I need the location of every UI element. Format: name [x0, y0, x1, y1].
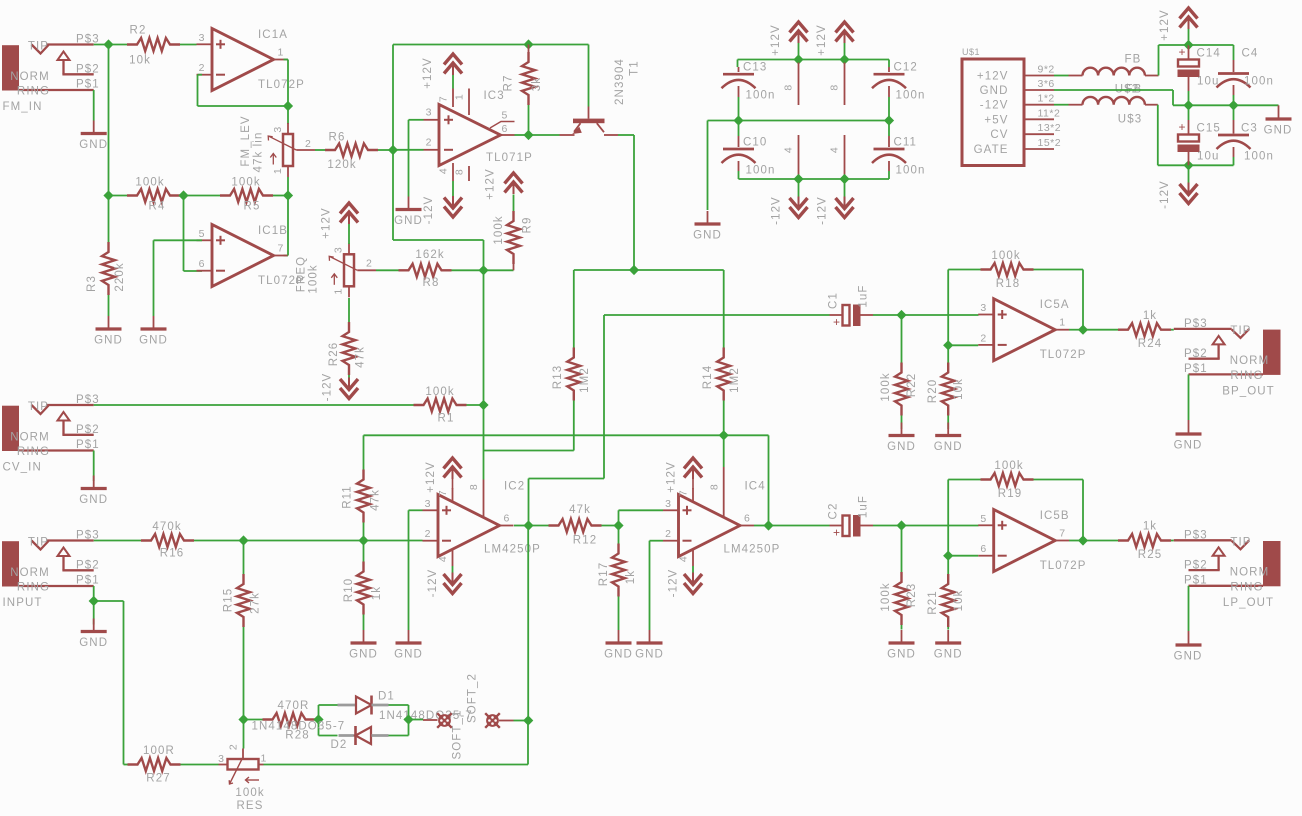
svg-text:CV: CV: [990, 129, 1008, 141]
svg-text:P$2: P$2: [1184, 348, 1208, 360]
svg-text:10k: 10k: [129, 55, 151, 67]
jumper pad SOFT_1: [438, 714, 451, 727]
ground GND (IC3 pin3): [408, 197, 410, 210]
svg-text:C3: C3: [1241, 123, 1258, 135]
svg-text:RING: RING: [17, 446, 50, 458]
wire IC5B output: [1069, 540, 1083, 542]
svg-text:SOFT_2: SOFT_2: [467, 673, 479, 723]
svg-text:IC2: IC2: [504, 481, 525, 493]
svg-text:NORM: NORM: [10, 567, 50, 579]
svg-text:P$1: P$1: [76, 439, 100, 451]
svg-text:T1: T1: [629, 60, 641, 76]
svg-text:TL072P: TL072P: [258, 79, 305, 91]
capacitor C1 1uF: [830, 314, 843, 316]
pin 7 power IC2: [452, 488, 454, 501]
svg-text:GND: GND: [635, 649, 664, 661]
wire: [738, 171, 740, 179]
svg-text:GND: GND: [394, 649, 423, 661]
node mid rail C4/C3: [1228, 100, 1238, 110]
svg-text:8: 8: [709, 484, 721, 490]
wire R14 to IC4 pin8: [723, 435, 725, 467]
svg-text:GND: GND: [79, 637, 108, 649]
resistor R28 470R: [244, 719, 263, 721]
wire to FM_LEV: [287, 106, 289, 124]
wire T1 collector to R13/R14 bracket: [618, 134, 634, 136]
connector CV_IN jack: [2, 406, 19, 451]
svg-text:2N3904: 2N3904: [614, 58, 626, 105]
wire: [108, 45, 110, 196]
resistor R8 162k: [399, 264, 452, 277]
svg-text:2: 2: [665, 528, 671, 540]
svg-text:15*2: 15*2: [1038, 137, 1062, 149]
svg-text:+: +: [1178, 45, 1185, 59]
svg-text:7: 7: [278, 243, 284, 255]
pin 4 power IC4: [692, 550, 694, 566]
jumper pad SOFT_2: [486, 714, 499, 727]
node R15 top: [238, 535, 248, 545]
svg-text:4: 4: [783, 147, 795, 153]
wire: [738, 97, 740, 121]
svg-text:GND: GND: [349, 649, 378, 661]
svg-text:7: 7: [437, 490, 449, 496]
svg-text:FB: FB: [1125, 54, 1142, 66]
wire FM_LEV pin1 down: [287, 177, 289, 196]
svg-text:GND: GND: [79, 139, 108, 151]
svg-text:R19: R19: [998, 488, 1022, 500]
svg-text:1M2: 1M2: [579, 367, 591, 393]
wire IC4 pin2 to ground: [650, 540, 664, 542]
wire: [1054, 104, 1069, 106]
svg-text:2: 2: [228, 744, 240, 750]
svg-text:IC5B: IC5B: [1040, 510, 1070, 522]
pin 5/6 offset pins IC3: [490, 122, 515, 129]
wire: [901, 625, 903, 630]
wire: [844, 43, 846, 60]
svg-text:1N4148DO35-7: 1N4148DO35-7: [252, 721, 346, 733]
wire: [348, 224, 350, 244]
svg-text:7: 7: [438, 96, 450, 102]
wire R15 bottom: [243, 627, 245, 720]
svg-text:2: 2: [980, 332, 986, 344]
svg-text:7: 7: [678, 490, 690, 496]
capacitor C14 10u: [1188, 45, 1190, 60]
wire U$2 to +12V node: [1158, 45, 1160, 76]
resistor R2 10k: [127, 38, 180, 51]
svg-text:-12V: -12V: [668, 569, 680, 598]
resistor R1 100k: [414, 399, 467, 412]
svg-text:GND: GND: [887, 649, 916, 661]
wire U$3 to -12V rail: [1157, 105, 1159, 166]
svg-text:NORM: NORM: [1230, 567, 1270, 579]
svg-text:3: 3: [980, 302, 986, 314]
resistor R22 100k: [901, 315, 903, 363]
svg-text:9*2: 9*2: [1038, 64, 1055, 76]
wire bracket: [574, 269, 724, 271]
wire IC3 out to T1: [529, 134, 560, 136]
node input ring: [89, 596, 99, 606]
wire IC2 out net down: [527, 526, 529, 721]
svg-text:GND: GND: [1174, 651, 1203, 663]
wire: [798, 43, 800, 60]
resistor R7 3k: [528, 45, 530, 63]
pin 7 power IC4: [692, 488, 694, 501]
svg-text:4: 4: [438, 168, 450, 174]
wire RES pin2: [243, 720, 245, 749]
resistor R25 1k: [1083, 540, 1118, 542]
op-amp IC5A TL072P: [994, 299, 1055, 361]
wire jog to IC4 pin3: [618, 510, 620, 525]
wire R27 to RES: [181, 764, 219, 766]
wire input line: [94, 540, 141, 542]
resistor R20 10k: [947, 345, 949, 362]
node -12V rail A: [793, 174, 803, 184]
svg-text:R4: R4: [149, 201, 166, 213]
svg-text:3: 3: [218, 753, 224, 765]
wire: [319, 735, 338, 737]
svg-text:27k: 27k: [250, 592, 262, 614]
svg-text:R24: R24: [1138, 338, 1162, 350]
node GND rail C12: [884, 115, 894, 125]
svg-text:10u: 10u: [1197, 76, 1220, 88]
wire R7 bottom: [528, 105, 530, 135]
resistor R27 100R: [124, 764, 128, 766]
svg-text:R16: R16: [160, 548, 184, 560]
svg-text:100k: 100k: [493, 215, 505, 244]
svg-text:-12V: -12V: [980, 100, 1009, 112]
wire: [738, 121, 740, 137]
svg-text:NORM: NORM: [10, 431, 50, 443]
wire: [618, 597, 620, 631]
svg-text:D1: D1: [378, 691, 395, 703]
wire: [1054, 75, 1069, 77]
wire FREQ wiper to R8: [376, 269, 399, 271]
pin 15*2 U$1: [1024, 148, 1054, 150]
wire net from FM_IN tip: [94, 44, 127, 46]
svg-text:R1: R1: [438, 413, 455, 425]
svg-text:-12V: -12V: [322, 373, 334, 402]
wire R6 to IC3 node: [378, 149, 393, 151]
wire: [1233, 45, 1235, 60]
svg-text:2: 2: [366, 258, 373, 270]
node R12/R17: [613, 520, 623, 530]
wire R25 to LP_OUT: [1171, 540, 1174, 542]
pin 4 power stub B: [844, 135, 846, 179]
wire FM_LEV wiper to R6: [315, 149, 325, 151]
wire C1 to IC5A pin3: [873, 314, 979, 316]
svg-text:P$1: P$1: [76, 575, 100, 587]
node R23 top: [896, 520, 906, 530]
op-amp IC4 LM4250P: [679, 495, 741, 557]
svg-text:GND: GND: [1174, 440, 1203, 452]
resistor R17 1k: [618, 526, 620, 544]
node R22 top: [896, 310, 906, 320]
wire IC2 out to C1: [528, 479, 530, 526]
wire R13 to IC2 pin8: [573, 401, 575, 451]
wire: [273, 195, 288, 197]
svg-text:FREQ: FREQ: [296, 256, 308, 292]
svg-text:R20: R20: [927, 379, 939, 403]
wire: [844, 179, 846, 197]
wire: [194, 540, 244, 542]
wire: [947, 627, 949, 630]
resistor R10 1k: [363, 541, 365, 562]
resistor R12 47k: [529, 525, 549, 527]
wire R9 bottom row: [484, 269, 514, 271]
node R21 top: [943, 551, 953, 561]
node IC4 output: [763, 520, 773, 530]
svg-text:TIP: TIP: [1230, 536, 1251, 548]
svg-text:+12V: +12V: [770, 24, 782, 56]
svg-text:4: 4: [437, 556, 449, 562]
node bracket junction: [629, 265, 639, 275]
svg-text:162k: 162k: [415, 249, 444, 261]
wire IC1B pin5 to ground: [154, 239, 203, 241]
potentiometer FREQ 100k: [344, 254, 354, 286]
node R7 top: [523, 39, 533, 49]
svg-text:1M2: 1M2: [729, 367, 741, 393]
node +12V out: [1183, 40, 1193, 50]
svg-text:47k: 47k: [355, 346, 367, 368]
svg-text:470R: 470R: [278, 700, 310, 712]
svg-text:GND: GND: [934, 649, 963, 661]
svg-text:-12V: -12V: [771, 196, 783, 225]
wire IC3 output: [515, 134, 529, 136]
ground GND (rail): [707, 121, 709, 211]
svg-text:P$3: P$3: [1184, 529, 1208, 541]
connector FM_IN jack: [2, 45, 19, 90]
svg-text:2: 2: [305, 138, 312, 150]
svg-text:100k: 100k: [235, 787, 264, 799]
svg-text:TIP: TIP: [28, 41, 49, 53]
ground GND (IC2 pin3): [408, 630, 410, 643]
svg-text:GND: GND: [94, 335, 123, 347]
wire R1 to bias node: [467, 404, 484, 406]
node IC1A out: [283, 101, 293, 111]
wire R24 to BP_OUT: [1171, 329, 1174, 331]
pin 8 power stub A: [798, 63, 800, 106]
svg-text:100k: 100k: [991, 250, 1020, 262]
svg-text:100k: 100k: [308, 264, 320, 293]
wire to SOFT_1 pad: [409, 719, 424, 721]
wire R18 feedback: [1034, 269, 1084, 271]
op-amp IC3 TL071P: [439, 105, 501, 166]
node D1/D2 left: [313, 714, 323, 724]
svg-text:P$1: P$1: [76, 79, 100, 91]
pin 1*2 U$1: [1024, 104, 1054, 106]
wire R19 feedback: [1034, 479, 1084, 481]
svg-text:-12V: -12V: [423, 196, 435, 225]
svg-text:R2: R2: [130, 25, 147, 37]
wire down to R13 branch: [483, 405, 485, 451]
supply +12V (power col B): [836, 22, 854, 33]
wire: [1233, 105, 1235, 120]
wire: [1233, 95, 1235, 105]
svg-text:R5: R5: [244, 201, 261, 213]
svg-text:TL071P: TL071P: [486, 152, 533, 164]
svg-text:+12V: +12V: [1159, 9, 1171, 41]
node -12V rail B: [839, 174, 849, 184]
resistor R16 470k: [141, 534, 194, 547]
svg-text:100k: 100k: [135, 177, 164, 189]
wire: [318, 720, 320, 736]
svg-text:LM4250P: LM4250P: [484, 544, 541, 556]
svg-text:-12V: -12V: [1159, 180, 1171, 209]
svg-text:1: 1: [278, 47, 284, 59]
svg-text:13*2: 13*2: [1038, 122, 1062, 134]
svg-text:SOFT_1: SOFT_1: [452, 709, 464, 759]
capacitor C2 1uF: [830, 525, 843, 527]
node R4/R5 junction: [178, 190, 188, 200]
pin 4 power IC2: [452, 550, 454, 566]
wire IC4 out to C2: [769, 525, 830, 527]
node R5 right: [283, 190, 293, 200]
svg-text:R22: R22: [906, 373, 918, 397]
svg-text:P$2: P$2: [1184, 559, 1208, 571]
svg-text:3: 3: [665, 498, 671, 510]
resistor R5 100k: [220, 189, 273, 202]
wire IC4 output: [754, 525, 769, 527]
wire: [888, 60, 890, 68]
node IC3 inverting input: [388, 145, 398, 155]
wire: [1188, 165, 1190, 183]
svg-text:1k: 1k: [625, 570, 637, 584]
resistor R19 100k: [948, 479, 980, 481]
resistor R21 10k: [947, 556, 949, 574]
svg-text:R21: R21: [927, 590, 939, 614]
wire D1 right: [389, 704, 409, 706]
svg-text:R27: R27: [146, 773, 170, 785]
svg-text:1k: 1k: [1143, 521, 1157, 533]
potentiometer FM_LEV 47k lin: [283, 134, 293, 166]
svg-text:GND: GND: [139, 335, 168, 347]
node SOFT_2: [523, 715, 533, 725]
wire: [452, 75, 454, 89]
wire GND rail: [708, 120, 890, 122]
svg-text:IC1A: IC1A: [258, 29, 288, 41]
svg-text:1: 1: [261, 753, 267, 765]
pin 4 power stub A: [798, 135, 800, 179]
svg-text:R18: R18: [996, 278, 1020, 290]
svg-text:5: 5: [199, 228, 205, 240]
svg-text:GND: GND: [934, 441, 963, 453]
wire CV line: [94, 404, 414, 406]
wire: [452, 181, 454, 197]
svg-text:6: 6: [504, 513, 510, 525]
wire RES pin1 to IC2 out net: [264, 764, 529, 766]
svg-text:100n: 100n: [1244, 151, 1274, 163]
wire: [483, 240, 485, 270]
svg-text:IC4: IC4: [745, 481, 766, 493]
wire: [901, 416, 903, 430]
ground GND (IC4 pin2): [649, 630, 651, 643]
svg-text:LM4250P: LM4250P: [724, 544, 781, 556]
resistor R9 100k: [505, 173, 523, 184]
svg-text:LP_OUT: LP_OUT: [1223, 597, 1274, 609]
svg-text:7: 7: [1059, 528, 1065, 540]
svg-text:FM_IN: FM_IN: [3, 101, 43, 113]
svg-text:8: 8: [454, 169, 466, 175]
svg-text:100k: 100k: [231, 177, 260, 189]
supply +12V (power col A): [790, 22, 808, 33]
svg-text:R15: R15: [223, 588, 235, 612]
wire: [318, 705, 320, 720]
wire: [363, 615, 365, 631]
svg-text:1k: 1k: [371, 586, 383, 600]
svg-text:C15: C15: [1197, 123, 1221, 135]
svg-text:10u: 10u: [1197, 151, 1220, 163]
svg-text:3: 3: [333, 247, 345, 253]
wire IC3 pin2: [393, 149, 424, 151]
wire: [1188, 91, 1190, 105]
svg-text:INPUT: INPUT: [3, 597, 43, 609]
resistor R4 100k: [127, 189, 180, 202]
svg-text:GND: GND: [1264, 125, 1293, 137]
svg-text:GND: GND: [693, 230, 722, 242]
wire: [1188, 25, 1190, 45]
svg-text:100k: 100k: [880, 582, 892, 611]
svg-text:+12V: +12V: [425, 461, 437, 493]
wire GND pin to mid rail: [1054, 89, 1173, 91]
wire R8 to bias node: [452, 269, 484, 271]
resistor R15 27k: [243, 541, 245, 575]
svg-text:RING: RING: [17, 582, 50, 594]
svg-text:3: 3: [199, 32, 205, 44]
svg-text:BP_OUT: BP_OUT: [1222, 386, 1275, 398]
svg-text:1: 1: [1059, 317, 1065, 329]
svg-text:R14: R14: [702, 365, 714, 389]
resistor R18 100k: [948, 269, 980, 271]
svg-text:47k: 47k: [370, 489, 382, 511]
wire: [888, 97, 890, 121]
wire IC1B feedback up: [287, 196, 289, 256]
svg-text:220k: 220k: [114, 262, 126, 291]
svg-text:100n: 100n: [896, 90, 926, 102]
svg-text:3*6: 3*6: [1038, 78, 1055, 90]
wire +12V rail: [738, 59, 890, 61]
svg-text:1: 1: [454, 94, 466, 100]
node FM tip junction: [103, 39, 113, 49]
svg-text:120k: 120k: [327, 159, 356, 171]
svg-text:CV_IN: CV_IN: [3, 462, 42, 474]
node IC2 output: [523, 520, 533, 530]
wire bias node down to R1: [483, 270, 485, 405]
wire D2 right: [389, 735, 409, 737]
svg-text:U$3: U$3: [1118, 114, 1142, 126]
pin 8 power stub B: [844, 63, 846, 106]
op-amp IC1A TL072P: [212, 29, 274, 91]
wire R2 to IC1A: [180, 44, 197, 46]
svg-text:IC5A: IC5A: [1040, 299, 1070, 311]
wire: [513, 195, 515, 212]
pin 3*6 U$1: [1024, 89, 1054, 91]
wire C2 to IC5B pin5: [873, 525, 979, 527]
svg-text:R13: R13: [552, 365, 564, 389]
wire vertical to top rail: [392, 45, 394, 151]
svg-text:3: 3: [272, 126, 284, 132]
svg-text:3: 3: [425, 498, 431, 510]
resistor R14 1M2: [717, 348, 730, 401]
node mid rail C14/C15: [1183, 100, 1193, 110]
svg-text:RES: RES: [237, 800, 264, 812]
svg-text:+12V: +12V: [422, 57, 434, 89]
node R14/BP: [719, 430, 729, 440]
wire INPUT ring to gnd node: [93, 586, 95, 601]
svg-text:-12V: -12V: [817, 196, 829, 225]
wire: [947, 416, 949, 430]
node IC5B output: [1078, 535, 1088, 545]
svg-text:1: 1: [333, 288, 345, 294]
wire: [888, 121, 890, 137]
